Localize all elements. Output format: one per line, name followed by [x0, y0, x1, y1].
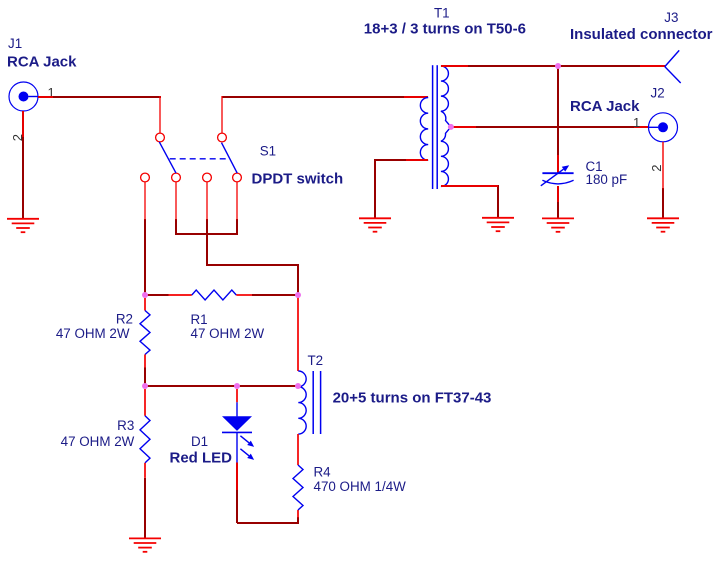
svg-text:J3: J3 — [664, 10, 678, 25]
wire C1 to ground — [557, 186, 559, 219]
svg-text:T1: T1 — [434, 6, 450, 21]
ground (T1 secondary) — [482, 218, 514, 231]
svg-text:R3: R3 — [117, 418, 134, 433]
resistor R4 — [293, 465, 303, 510]
wire S1 pole B to T1 primary — [222, 96, 428, 133]
svg-text:S1: S1 — [260, 143, 276, 158]
switch S1 lever A — [159, 142, 176, 173]
svg-text:T2: T2 — [308, 353, 324, 368]
svg-text:R1: R1 — [191, 312, 208, 327]
node E junction (T2 tap) — [295, 383, 301, 389]
svg-text:RCA Jack: RCA Jack — [570, 98, 640, 115]
wire J1 pin1 to S1 pole A — [38, 96, 161, 133]
wire LED cathode down — [236, 463, 238, 524]
switch S1 throw contacts — [141, 173, 242, 182]
wire T2 winding bottom to R4 — [297, 434, 299, 465]
svg-text:47 OHM 2W: 47 OHM 2W — [56, 326, 130, 341]
svg-text:1: 1 — [633, 115, 640, 130]
junction (top rail to C1) — [555, 63, 561, 69]
svg-text:RCA Jack: RCA Jack — [7, 54, 77, 71]
svg-text:D1: D1 — [191, 434, 208, 449]
svg-text:DPDT switch: DPDT switch — [252, 171, 344, 188]
node B junction (R1 right / T2 top) — [295, 292, 301, 298]
ground (under J2) — [647, 218, 679, 231]
node D junction (LED anode) — [234, 383, 240, 389]
resistor R2 — [140, 298, 150, 386]
svg-text:20+5 turns on FT37-43: 20+5 turns on FT37-43 — [333, 390, 492, 407]
svg-text:R2: R2 — [116, 312, 133, 327]
LED D1 — [222, 389, 254, 463]
wire T1 secondary bottom to ground — [441, 186, 498, 218]
wire S1 throw 2 to throw 4 — [176, 182, 237, 234]
node A junction (R1 left / R2 top) — [142, 292, 148, 298]
transformer T1 core — [433, 65, 438, 189]
wire T1 primary bottom to ground — [375, 160, 428, 218]
connector J1 (RCA jack symbol) — [9, 82, 39, 111]
ground (under C1) — [542, 218, 574, 231]
transformer T2 core — [313, 371, 320, 434]
svg-text:180 pF: 180 pF — [586, 172, 628, 187]
wire LED bottom to R4 bottom — [237, 510, 298, 523]
wire node C to node E — [145, 385, 298, 387]
node C junction (R2 bottom / R3 top) — [142, 383, 148, 389]
transformer T2 winding — [298, 371, 306, 434]
resistor R3 — [140, 389, 150, 538]
wire node B to T2 winding top — [297, 295, 299, 371]
wire T1 tap to J2 pin1 — [451, 126, 648, 128]
svg-text:47 OHM 2W: 47 OHM 2W — [61, 434, 135, 449]
svg-text:47 OHM 2W: 47 OHM 2W — [191, 326, 265, 341]
wire S1 throw 3 to node B — [207, 182, 298, 295]
transformer T1 secondary winding (with centre tap) — [441, 66, 451, 186]
svg-text:Insulated connector: Insulated connector — [570, 26, 713, 43]
connector J2 (RCA jack symbol) — [649, 113, 678, 142]
svg-text:2: 2 — [649, 165, 664, 172]
wire T1 secondary top to J3 — [441, 65, 665, 67]
wire J2 pin2 to ground — [662, 142, 664, 219]
capacitor C1 (variable) — [541, 165, 574, 186]
transformer T1 primary winding — [420, 98, 428, 161]
ground (under J1) — [7, 219, 39, 232]
wire S1 throw 1 to node A — [144, 182, 146, 295]
ground (T1 primary) — [359, 218, 391, 231]
resistor R1 — [145, 290, 298, 300]
svg-text:R4: R4 — [314, 464, 332, 479]
svg-text:J1: J1 — [8, 36, 22, 51]
svg-text:18+3 / 3 turns on T50-6: 18+3 / 3 turns on T50-6 — [364, 21, 526, 38]
svg-text:470 OHM 1/4W: 470 OHM 1/4W — [314, 479, 407, 494]
wire J1 pin2 to ground — [22, 111, 24, 219]
junction (T1 secondary tap) — [448, 124, 454, 130]
switch S1 pole contacts — [156, 133, 227, 142]
svg-text:J2: J2 — [651, 85, 665, 100]
wire junction to C1 — [557, 66, 559, 173]
switch S1 gang dashed link — [170, 158, 228, 160]
ground (under R3) — [129, 538, 161, 551]
switch S1 lever B — [222, 143, 238, 173]
svg-text:Red LED: Red LED — [170, 450, 233, 467]
connector J3 (insulated connector symbol) — [665, 50, 681, 83]
